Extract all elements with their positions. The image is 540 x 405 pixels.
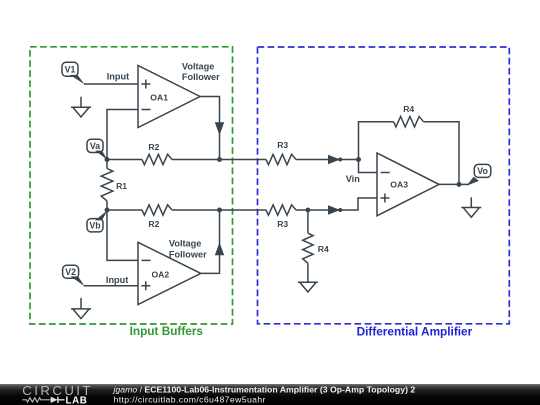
op-amp OA1 minus input (142, 109, 151, 111)
op-amp OA3 minus input (381, 172, 390, 174)
wire node to R3 (top) (220, 159, 267, 161)
wire Vin node to OA3 - (359, 160, 378, 173)
op-amp OA2 minus input (142, 259, 151, 261)
arrow on bottom wire (right) (328, 205, 340, 214)
op-amp OA2 (138, 242, 201, 304)
resistor R4 (feedback) (394, 116, 424, 126)
logo diode glyph (51, 397, 58, 403)
wire R3 to OA3 + corner (296, 198, 377, 210)
node flag V2 box (63, 265, 79, 278)
resistor R4 (bottom vertical) (303, 233, 313, 263)
logo resistor glyph (22, 398, 50, 402)
svg-text:V1: V1 (65, 65, 76, 75)
wire R1 bottom stub (106, 201, 108, 210)
arrow on OA1 output (down) (215, 122, 224, 135)
wire R2 to node (172, 159, 220, 161)
op-amp OA1 (138, 66, 200, 128)
svg-text:Vb: Vb (89, 220, 101, 230)
svg-text:R2: R2 (148, 219, 159, 229)
flag tick Va (95, 151, 108, 160)
wire Vb to R2 (bottom) (107, 209, 142, 211)
svg-text:Vin: Vin (346, 174, 361, 184)
svg-text:Voltage: Voltage (169, 238, 202, 248)
svg-text:Voltage: Voltage (182, 61, 215, 71)
ground under V1 (71, 97, 91, 117)
svg-text:jgamo / ECE1100-Lab06-Instrume: jgamo / ECE1100-Lab06-Instrumentation Am… (113, 385, 416, 395)
svg-text:OA3: OA3 (390, 180, 408, 190)
svg-text:R4: R4 (403, 104, 414, 114)
flag tick V1 (70, 75, 85, 84)
wire R3 to node Vin branch (296, 159, 359, 161)
svg-text:R2: R2 (148, 142, 159, 152)
wire node to R3 (bottom) (220, 209, 267, 211)
svg-text:OA1: OA1 (150, 92, 168, 102)
arrow on top wire (right) (328, 155, 340, 164)
resistor R2 (top) (142, 154, 172, 164)
wire feedback loop up left (359, 122, 394, 160)
svg-text:OA2: OA2 (152, 270, 170, 280)
op-amp OA2 plus input (141, 281, 150, 290)
svg-text:R3: R3 (277, 219, 288, 229)
wire R1 top stub (106, 160, 108, 169)
wire R4 to ground (307, 263, 309, 282)
svg-text:R3: R3 (277, 140, 288, 150)
junction OA3 output node (457, 182, 462, 187)
node flag V1 box (62, 62, 78, 76)
resistor R1 (101, 169, 113, 202)
svg-text:Input: Input (107, 71, 129, 81)
svg-text:Follower: Follower (182, 72, 220, 82)
differential amplifier box (258, 47, 510, 324)
wire Va to R2 (107, 159, 142, 161)
svg-text:LAB: LAB (66, 395, 88, 405)
ground under Vo (461, 197, 481, 217)
footer bar (0, 384, 540, 405)
svg-text:Input: Input (106, 275, 128, 285)
wire OA1 - feedback to node Va (107, 110, 138, 160)
flag tick V2 (71, 276, 85, 286)
arrow tip dot bottom (338, 208, 342, 212)
junction node Va (105, 157, 110, 162)
wire V1 to OA1 + (84, 83, 138, 85)
svg-text:R4: R4 (318, 244, 329, 254)
wire OA1 output down to node (200, 97, 220, 160)
arrow on OA2 output (up) (215, 242, 224, 255)
node flag Vo box (474, 164, 491, 177)
svg-text:R1: R1 (116, 181, 127, 191)
junction Vin node (356, 157, 361, 162)
svg-text:Follower: Follower (169, 250, 207, 260)
op-amp OA3 plus input (380, 194, 389, 203)
wire OA2 output up to node (201, 210, 220, 273)
svg-text:Vo: Vo (477, 166, 488, 176)
node flag Vb box (87, 219, 103, 232)
svg-text:Va: Va (90, 141, 100, 151)
junction R4 branch node (306, 208, 311, 213)
arrow tip dot top (338, 158, 342, 162)
svg-text:Input Buffers: Input Buffers (130, 324, 204, 338)
resistor R2 (bottom) (142, 205, 172, 215)
junction OA2 output node (217, 208, 222, 213)
resistor R3 (bottom) (266, 205, 296, 215)
input buffers box (30, 47, 233, 324)
wire V2 to OA2 + (84, 285, 138, 287)
junction OA1 output node (217, 157, 222, 162)
node flag Va box (87, 139, 103, 152)
flag tick Vo (467, 177, 480, 186)
svg-text:Differential Amplifier: Differential Amplifier (357, 325, 473, 339)
ground under V2 (71, 298, 91, 319)
wire branch down to R4 (bottom) (307, 210, 309, 233)
op-amp OA3 (377, 153, 439, 216)
wire OA2 - feedback to node Vb (107, 210, 138, 260)
wire feedback loop right down (424, 122, 460, 185)
wire R2 to node (bottom) (172, 209, 220, 211)
ground under R4 (298, 282, 318, 292)
svg-text:V2: V2 (65, 267, 76, 277)
resistor R3 (top) (266, 154, 296, 164)
svg-text:http://circuitlab.com/c6u487ew: http://circuitlab.com/c6u487ew5uahr (114, 394, 266, 404)
junction node Vb (105, 208, 110, 213)
wire OA3 output to Vo (439, 183, 469, 185)
flag tick Vb (95, 210, 108, 220)
op-amp OA1 plus input (141, 80, 150, 89)
